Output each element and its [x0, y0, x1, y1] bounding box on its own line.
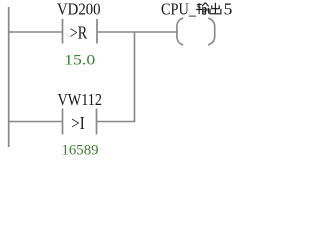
compare contact >I right bar [96, 109, 98, 135]
coil CPU_输出5 left parenthesis [177, 18, 183, 45]
coil label hanzi 输 [196, 3, 209, 15]
svg-text:15.0: 15.0 [64, 52, 95, 68]
svg-text:>I: >I [71, 113, 84, 133]
wire rung1 right segment to coil [97, 31, 178, 33]
compare contact >R left bar [62, 19, 64, 44]
compare contact >I left bar [62, 109, 64, 135]
left power rail [8, 7, 10, 147]
coil label hanzi 出 [210, 3, 221, 14]
branch junction vertical wire [134, 32, 136, 122]
wire rung1 left segment [8, 31, 63, 33]
compare contact >R right bar [96, 19, 98, 44]
svg-text:CPU_: CPU_ [161, 0, 196, 19]
wire rung2 left segment [8, 121, 63, 123]
svg-text:5: 5 [224, 0, 233, 19]
svg-text:16589: 16589 [62, 142, 99, 156]
svg-text:VW112: VW112 [58, 90, 103, 109]
svg-text:VD200: VD200 [57, 0, 101, 19]
wire rung2 right segment to junction [97, 121, 136, 123]
coil CPU_输出5 right parenthesis [208, 18, 215, 45]
svg-text:>R: >R [70, 23, 87, 43]
